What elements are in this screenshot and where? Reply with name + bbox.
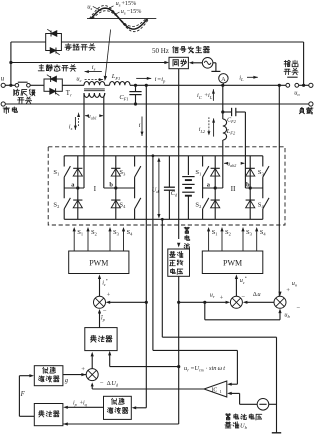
- svg-text:PWM: PWM: [223, 259, 242, 268]
- capacitor C_F2: [223, 108, 246, 116]
- label u_b: [284, 311, 290, 319]
- label S4 bridge II: [258, 201, 265, 209]
- arrow g into junction4: [81, 373, 86, 376]
- terminal mains neutral: [1, 102, 5, 106]
- svg-text:uab1: uab1: [88, 114, 97, 121]
- label 负载 (load): [299, 107, 313, 114]
- wire bypass riser: [10, 42, 12, 85]
- low pass filter box 1 低通滤波器: [34, 366, 63, 386]
- label S1 bridge I: [53, 169, 59, 177]
- summing junction 2 (voltage ref): [230, 296, 242, 308]
- bridge I left leg upper switch S1 with diode: [64, 156, 82, 188]
- svg-text:−: −: [296, 305, 300, 312]
- wire LPF2 output to multiplier2: [63, 406, 103, 409]
- sync box 同步: [169, 57, 188, 68]
- oscillator symbol (sine source): [202, 58, 213, 69]
- label + junction3: [286, 287, 290, 294]
- mains voltage sine wave u_s: [91, 8, 148, 29]
- PWM box inverter I: [69, 251, 129, 274]
- wire to static switch: [30, 84, 44, 86]
- wire LPF1 to junction4 (g): [63, 375, 86, 384]
- wire bypass rail left: [11, 41, 46, 43]
- wire sync sense from input: [11, 61, 169, 64]
- wire reference to multiplier 1: [108, 351, 179, 367]
- label node a bridge I: [71, 182, 75, 189]
- capacitor C_d: [164, 156, 175, 220]
- label u_ab2 between bridge II legs: [224, 162, 245, 169]
- node C_F1 neutral join: [134, 102, 137, 105]
- bridge I right leg lower switch S4 with diode: [111, 188, 141, 219]
- label S3 bridge II: [258, 169, 265, 177]
- label S3 bridge I: [119, 169, 126, 177]
- wire junction2 output to PWM II: [235, 274, 238, 296]
- svg-text:+: +: [81, 366, 85, 373]
- PWM box inverter II: [202, 251, 262, 274]
- label 防反馈开关: [14, 89, 35, 103]
- voltage waveform axis: [87, 18, 156, 20]
- wire i sense into LPF2: [132, 406, 147, 409]
- wire multiplier1 to junction1: [98, 309, 101, 328]
- label node b bridge II: [246, 182, 250, 189]
- svg-text:u: u: [1, 76, 5, 83]
- svg-text:−: −: [241, 294, 245, 301]
- svg-text:+: +: [107, 292, 111, 299]
- summing junction 1 (current loop): [94, 296, 106, 308]
- inductor L_F1: [110, 82, 131, 86]
- bridge II right leg lower switch S4 with diode: [246, 188, 269, 219]
- label 市电 (mains): [3, 107, 17, 114]
- inductor L_F2: [223, 119, 227, 140]
- terminal load neutral: [309, 102, 313, 106]
- label S2 bridge II: [195, 201, 201, 209]
- lower tolerance envelope u_s-15% (dashed): [93, 11, 147, 27]
- svg-text:+15%: +15%: [121, 0, 136, 7]
- svg-text:Δ: Δ: [253, 291, 257, 298]
- wire F feedback loop: [19, 374, 34, 416]
- label node b bridge I: [109, 182, 113, 189]
- wire i sense to junction 1: [106, 301, 147, 304]
- node ammeter branch: [221, 84, 224, 87]
- label node a bridge II: [207, 182, 211, 189]
- gate signal arrow S1 bridge I: [73, 227, 76, 251]
- label i_p+i_q: [73, 400, 87, 407]
- gate signal arrow S4 bridge I: [122, 227, 125, 251]
- wire IC1 output to junction 4: [91, 382, 204, 389]
- svg-text:IC: IC: [211, 388, 217, 394]
- label u_o at switch: [294, 90, 300, 98]
- svg-text:b: b: [246, 182, 250, 189]
- label u_c* reference: [240, 275, 247, 284]
- low pass filter box 2 低通滤波器: [104, 396, 132, 419]
- label gate S1 bridge II: [212, 229, 218, 237]
- bridge II left leg lower switch S2 with diode: [203, 188, 220, 219]
- label delta U_d: [107, 380, 119, 388]
- wire reference output down: [178, 276, 180, 424]
- gate signal arrow S3 bridge I: [108, 227, 111, 251]
- label i_L with arrow: [239, 74, 258, 82]
- bridge I node b wire: [104, 186, 135, 189]
- label - junction2: [241, 294, 245, 301]
- wire DC+ sense to IC1: [153, 350, 238, 385]
- svg-text:+: +: [220, 294, 224, 301]
- terminal load phase: [299, 83, 313, 87]
- leader arrow from waveform to wire: [104, 30, 111, 82]
- label u_s+15%: [108, 0, 136, 9]
- wire u_o sense down: [278, 85, 280, 296]
- wire L_F2 to bridge II node a: [222, 140, 224, 188]
- node multiplier1 branch: [177, 365, 180, 368]
- op-amp IC1: [204, 381, 227, 397]
- bridge II right leg upper switch S3 with diode: [246, 156, 269, 188]
- svg-text:i: i: [139, 122, 141, 129]
- label delta u: [253, 291, 261, 298]
- label i_c* reference: [102, 278, 108, 287]
- label i with down arrow: [139, 117, 144, 137]
- wire u_r to junction 2: [179, 301, 231, 304]
- transformer Tr core: [84, 89, 105, 91]
- wire junction4 to multiplier1: [91, 352, 94, 369]
- wire bypass rail right: [61, 41, 303, 43]
- gate signal arrow S4 bridge II: [255, 227, 258, 251]
- bridge II node b wire: [245, 186, 262, 189]
- wire static switch to transformer: [62, 84, 84, 86]
- svg-text:1: 1: [220, 389, 222, 394]
- node u_r down branch: [203, 301, 206, 304]
- label gate S2 bridge II: [225, 229, 231, 237]
- svg-text:Δ: Δ: [107, 380, 111, 387]
- label - junction3: [296, 305, 300, 312]
- label C_d: [171, 190, 178, 198]
- label gate S4 bridge I: [127, 229, 134, 237]
- transformer Tr secondary winding: [84, 93, 105, 97]
- wire bypass drop to output: [303, 42, 305, 85]
- node i sense tap: [145, 84, 148, 87]
- bridge I right leg upper switch S3 with diode: [111, 156, 141, 188]
- label - junction1: [103, 308, 107, 315]
- label i=i_p with arrow: [136, 76, 166, 84]
- svg-text:−15%: −15%: [127, 8, 142, 15]
- wire main line: [83, 84, 85, 86]
- label F: [20, 391, 26, 398]
- svg-text:A: A: [221, 76, 226, 83]
- node i sense to junction1: [145, 301, 148, 304]
- transformer Tr primary winding (series): [84, 82, 105, 86]
- label gate S1 bridge I: [77, 229, 83, 237]
- wire reference to multiplier 2 (bottom): [63, 422, 179, 425]
- label i_L2 arrows: [199, 117, 215, 136]
- summing junction 3 (output voltage): [274, 296, 286, 308]
- label u_s: [87, 3, 101, 11]
- label + junction2: [220, 294, 224, 301]
- label i_C+i_L with up arrow: [197, 89, 215, 101]
- bridge II left leg upper switch S1 with diode: [203, 156, 220, 188]
- node u_o sense tap: [278, 84, 281, 87]
- svg-text:r: r: [70, 93, 72, 98]
- label 蓄电池电压基准U_b: [225, 414, 262, 431]
- wire junction1 output to PWM I: [98, 274, 101, 296]
- oscillator ground stub: [211, 63, 220, 72]
- label U_d with double arrow: [152, 157, 161, 218]
- label L_F1: [111, 73, 120, 81]
- battery 蓄电池 symbol: [182, 156, 194, 220]
- bridge I left leg lower switch S2 with diode: [64, 188, 82, 219]
- node bypass rejoin: [302, 84, 305, 87]
- label i_s with arrow (primary current): [85, 64, 102, 73]
- label C_F2: [227, 117, 236, 125]
- node DC+ sense: [152, 154, 155, 157]
- label gate S3 bridge II: [246, 229, 253, 237]
- label S2 bridge I: [53, 201, 59, 209]
- label i_s vertical arrows (secondary current): [69, 113, 80, 131]
- svg-text:ip: ip: [73, 400, 77, 407]
- svg-text:50 Hz: 50 Hz: [152, 47, 169, 55]
- svg-text:F: F: [20, 391, 26, 398]
- upper tolerance envelope u_s+15% (dashed): [90, 6, 150, 32]
- battery reference source U_b circle: [257, 399, 269, 411]
- gate signal arrow S2 bridge I: [86, 227, 89, 251]
- wire main line across: [105, 84, 286, 86]
- gate signal arrow S3 bridge II: [241, 227, 244, 251]
- terminal u (phase input): [1, 83, 5, 87]
- node sync sense tap: [9, 61, 12, 64]
- wire oscillator to sync box: [189, 61, 203, 64]
- wire U_b source to IC1 lower input: [227, 392, 257, 405]
- svg-text:−: −: [103, 308, 107, 315]
- label - junction4: [100, 379, 104, 386]
- label 旁路开关: [65, 44, 95, 51]
- power stage dashed enclosure: [48, 147, 285, 225]
- wire after L_F1: [0, 0, 1, 1]
- wire secondary right drop to bridge I node b: [104, 93, 105, 188]
- label 50Hz信号发生器: [152, 46, 210, 55]
- label 蓄电池 (battery): [184, 227, 190, 249]
- node junction bypass riser: [9, 84, 12, 87]
- wire inverter II branch: [222, 85, 224, 119]
- svg-text:iq: iq: [83, 400, 87, 407]
- capacitor C_F1: [129, 85, 141, 104]
- label + junction4: [81, 366, 85, 373]
- wire U_b source right: [269, 403, 277, 405]
- node C_F2 tap: [221, 110, 224, 113]
- label u_r: [210, 292, 215, 300]
- svg-text:b: b: [109, 182, 113, 189]
- label u_r=U_rm sinwt: [184, 365, 225, 373]
- ground symbol: [272, 432, 281, 434]
- ammeter A: [219, 74, 228, 86]
- wire DC- sense down: [161, 219, 163, 337]
- reference sine box 基准正弦电压: [168, 249, 190, 276]
- node u_r branch: [177, 301, 180, 304]
- svg-text:uab2: uab2: [227, 162, 236, 169]
- wire from terminal u: [5, 84, 15, 86]
- svg-text:II: II: [231, 184, 236, 193]
- wire junction3 to junction2 delta u: [243, 301, 274, 304]
- wire current sense i down: [145, 85, 147, 408]
- label Tr: [66, 90, 72, 98]
- wire u_r branch down to u_b: [205, 302, 282, 320]
- bypass switch 旁路开关 (antiparallel thyristor pair): [46, 29, 62, 55]
- label u_c with dashed arrow (compensation voltage): [76, 76, 103, 84]
- main static switch 主静态开关 (antiparallel thyristor pair): [44, 75, 62, 96]
- label S1 bridge II: [195, 169, 201, 177]
- label gate S3 bridge I: [113, 229, 120, 237]
- wire sync box output down: [178, 69, 180, 239]
- svg-text:+: +: [286, 287, 290, 294]
- svg-text:−: −: [100, 379, 104, 386]
- label C_F1: [119, 94, 128, 102]
- gate signal arrow S2 bridge II: [220, 227, 223, 251]
- multiplier box 乘法器 2: [34, 404, 63, 426]
- svg-text:i: i: [155, 76, 157, 83]
- wire sync into reference box arrow: [177, 243, 180, 248]
- label u_s-15%: [114, 8, 141, 16]
- node C_F1 tap: [134, 84, 137, 87]
- wire DC+ sense down: [152, 156, 154, 351]
- multiplier box 乘法器 1: [85, 328, 117, 351]
- svg-text:PWM: PWM: [89, 259, 108, 268]
- label 输出开关: [284, 60, 298, 74]
- bridge II node a wire: [203, 186, 223, 189]
- wire C_F2 to bridge II node b: [244, 112, 246, 188]
- svg-text:sin: sin: [209, 365, 216, 372]
- label i_p hat: [101, 315, 105, 323]
- label bridge I: [94, 184, 97, 193]
- label bridge II: [231, 184, 236, 193]
- svg-text:t: t: [223, 365, 225, 372]
- svg-text:ω: ω: [218, 365, 223, 372]
- label gate S4 bridge II: [260, 229, 267, 237]
- node DC- sense: [161, 218, 164, 221]
- wire secondary left drop to bridge I node a: [83, 93, 85, 188]
- wire DC- sense to reference ground: [162, 337, 276, 432]
- svg-text:·: ·: [206, 365, 208, 372]
- label 主静态开关: [38, 65, 76, 72]
- label gate S2 bridge I: [91, 229, 97, 237]
- gate signal arrow S1 bridge II: [207, 227, 210, 251]
- bridge I node a wire: [64, 186, 84, 189]
- label u_o sense: [292, 280, 298, 288]
- label L_F2: [226, 128, 236, 136]
- summing junction 4 (DC voltage loop): [86, 369, 98, 381]
- label S4 bridge I: [119, 201, 126, 209]
- output switch 输出开关: [286, 77, 299, 87]
- label u_ab1 between secondary leads: [85, 114, 103, 121]
- switch 防反馈开关 (anti-feedback switch): [15, 82, 30, 87]
- label + junction1: [107, 292, 111, 299]
- wire neutral rail: [5, 103, 309, 105]
- wire DC bus negative rail: [64, 218, 263, 220]
- label u: [1, 76, 5, 83]
- wire DC bus positive rail: [64, 155, 263, 157]
- svg-text:u: u: [257, 291, 260, 298]
- wire u_o arrow into junction3: [278, 292, 281, 297]
